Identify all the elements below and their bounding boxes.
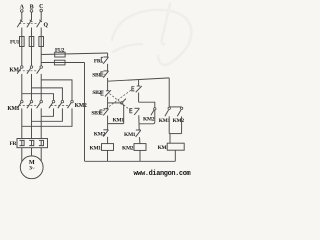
wire FR to motor C [40, 148, 42, 161]
wire SB1 to bus [107, 78, 109, 81]
wire KM2 pole2 output crossover [32, 108, 63, 121]
contactor KM2 linkage dashed [51, 104, 70, 106]
wire KM1 coil to bottom rail [107, 150, 109, 161]
contactor KM1 aux NO self-hold contact [121, 99, 127, 124]
wire SB2b to joint2 [138, 115, 140, 124]
wire tap A to KM2 pole1 [22, 94, 54, 101]
contactor KM2 aux NO self-hold contact [139, 108, 156, 124]
wire SB3b to aux tap2 [138, 93, 140, 103]
label KM2 aux [143, 117, 155, 123]
svg-text:3~: 3~ [29, 165, 34, 171]
wire SB3 to joint [107, 116, 109, 124]
label FU1 [10, 39, 20, 45]
svg-text:SB3: SB3 [91, 110, 100, 116]
watermark www.diangon.com [134, 170, 191, 178]
wire KM2 NC to KM1 coil [107, 137, 109, 144]
wire KM coil to bottom rail [174, 150, 176, 161]
svg-text:FU2: FU2 [55, 48, 65, 54]
contactor KM linkage dashed [19, 70, 39, 72]
wire aux tap horizontal [108, 102, 121, 104]
label KM1 main [7, 106, 19, 112]
control bus horizontal [108, 78, 170, 81]
wire KM2 aux tap horizontal [139, 102, 155, 107]
svg-text:KM1: KM1 [113, 118, 125, 124]
wire tap C to KM2 pole3 [41, 80, 72, 100]
contactor KM2 aux NO contact for KM coil [177, 107, 183, 116]
label KM1 interlock [124, 132, 136, 138]
contactor KM main contact A [17, 66, 23, 74]
wire FR to motor B [31, 148, 33, 156]
svg-text:KM1: KM1 [90, 145, 102, 151]
wire KM to KM1 contact B with tap [31, 74, 33, 100]
label FU2 [55, 48, 65, 54]
svg-text:KM2: KM2 [94, 131, 106, 137]
svg-text:FR: FR [10, 141, 18, 147]
wire KM aux split horizontal [169, 106, 181, 108]
svg-text:FR: FR [94, 59, 102, 65]
wire switch to fuse C [40, 28, 42, 37]
svg-text:FU1: FU1 [10, 39, 20, 45]
wire fuse to KM contact A [21, 47, 23, 66]
svg-text:KM1: KM1 [159, 118, 171, 124]
svg-text:KM1: KM1 [124, 132, 136, 138]
label FR main [10, 141, 18, 147]
contactor KM1 main contact B [27, 100, 33, 108]
coil KM [167, 143, 184, 150]
wire fuse to KM contact B [31, 47, 33, 66]
contactor KM2 main contact pole1 [49, 100, 55, 108]
dashed link SB3 contacts [103, 89, 132, 111]
wire control feed down from FU2 upper [107, 53, 109, 57]
wire KM2 pole3 output crossover [22, 108, 72, 126]
svg-text:www.diangon.com: www.diangon.com [134, 170, 191, 178]
contactor KM main contact C [37, 66, 43, 74]
contactor KM1 NC interlock on KM2 branch [136, 130, 141, 137]
wire KM to KM1 contact A with tap [21, 74, 23, 100]
label SB1 [92, 72, 101, 78]
switch Q pole C [37, 20, 42, 28]
svg-text:KM2: KM2 [122, 145, 134, 151]
phase terminal B [30, 5, 34, 13]
wire KM2 pole1 output crossover [41, 108, 53, 116]
contactor KM2 main contact pole3 [67, 100, 73, 108]
label KM2 far right [173, 118, 185, 124]
switch Q linkage dashed [19, 23, 39, 25]
dashed link SB2 contacts [110, 94, 131, 111]
reverse button SB3 NO contact on KM2 branch [132, 86, 142, 92]
fuse FU1 pole C [39, 37, 44, 47]
wire KM1 C output to FR [40, 108, 42, 138]
control fuse FU2 lower [41, 60, 84, 65]
phase terminal C [39, 4, 43, 12]
wire joint2 to KM1 NC [138, 124, 140, 130]
wire KM1 A output to FR [21, 108, 23, 138]
switch Q pole A [17, 20, 22, 28]
svg-text:KM2: KM2 [173, 118, 185, 124]
svg-text:KM: KM [158, 145, 168, 151]
switch Q pole B [27, 20, 32, 28]
label FR control [94, 59, 102, 65]
wire bus to SB2 [107, 81, 109, 90]
label KM1 aux [113, 118, 125, 124]
wire FR contact to SB1 [107, 64, 109, 71]
faint scan scribble artifact [112, 4, 191, 65]
start button SB2 NC contact on KM2 branch [130, 108, 140, 115]
svg-text:SB1: SB1 [92, 72, 101, 78]
svg-text:KM1: KM1 [7, 106, 19, 112]
coil KM2 [134, 144, 146, 151]
wire SB2 to SB3 [107, 103, 109, 109]
wire tap B to KM2 pole2 [32, 88, 63, 100]
label KM [9, 68, 19, 74]
wire phase A terminal to switch [21, 12, 23, 20]
stop button SB1 NC [101, 71, 109, 78]
wire phase C terminal to switch [40, 12, 42, 20]
wire FR to motor A [21, 148, 23, 162]
contactor KM1 main contact A [17, 100, 23, 108]
wire SB2 to aux tap [107, 97, 109, 103]
wire KM2 coil to bottom rail [139, 150, 141, 161]
wire control return left vertical [84, 63, 86, 162]
svg-text:Q: Q [44, 22, 49, 28]
contactor KM2 NC interlock on KM1 branch [103, 130, 108, 137]
svg-text:KM: KM [9, 68, 19, 74]
wire joint to KM2 NC [107, 124, 109, 130]
fuse FU1 pole A [20, 37, 25, 47]
thermal relay FR heater box [17, 139, 48, 148]
wire bus to SB3b branch [138, 80, 140, 86]
svg-text:KM2: KM2 [143, 117, 155, 123]
label KM1 coil [90, 145, 102, 151]
wire bottom rail [85, 160, 176, 162]
wire phase B terminal to switch [31, 12, 33, 20]
wire bus end down to KM aux pair [168, 78, 170, 107]
label KM2 interlock [94, 131, 106, 137]
wire KM to KM1 contact C with tap [40, 74, 42, 100]
wire KM1 B output to FR [31, 108, 33, 138]
wire switch to fuse A [21, 28, 23, 37]
motor M 3-phase [20, 156, 43, 179]
svg-text:SB2: SB2 [92, 90, 101, 96]
contactor KM1 aux NO contact for KM coil [165, 107, 171, 116]
coil KM1 [102, 144, 114, 151]
wire fuse to KM contact C [40, 47, 42, 66]
start button SB2 NO [101, 90, 111, 96]
reverse button SB3 NC on KM1 branch [100, 109, 109, 116]
contactor KM1 linkage dashed [19, 104, 39, 106]
contactor KM1 main contact C [37, 100, 43, 108]
wire switch to fuse B [31, 28, 33, 37]
label KM coil [158, 145, 168, 151]
wire aux rejoin horizontal [108, 123, 124, 125]
label Q [44, 22, 49, 28]
wire KM2 aux down to merge [181, 116, 183, 133]
phase terminal A [20, 5, 25, 13]
wire merge horizontal [169, 133, 181, 135]
wire KM1 NC to KM2 coil [139, 137, 141, 144]
label KM2 coil [122, 145, 134, 151]
wire merge to KM coil [169, 134, 171, 144]
control fuse FU2 upper [41, 52, 107, 57]
contactor KM main contact B [27, 66, 33, 74]
fuse FU1 pole B [29, 37, 34, 47]
label SB3 [91, 110, 100, 116]
thermal relay FR NC contact [101, 57, 108, 64]
label KM1 far right [159, 118, 171, 124]
svg-text:KM2: KM2 [75, 103, 87, 109]
label SB2 [92, 90, 101, 96]
label KM2 main [75, 103, 87, 109]
contactor KM2 main contact pole2 [58, 100, 64, 108]
wire KM1 aux down to merge [168, 116, 170, 133]
